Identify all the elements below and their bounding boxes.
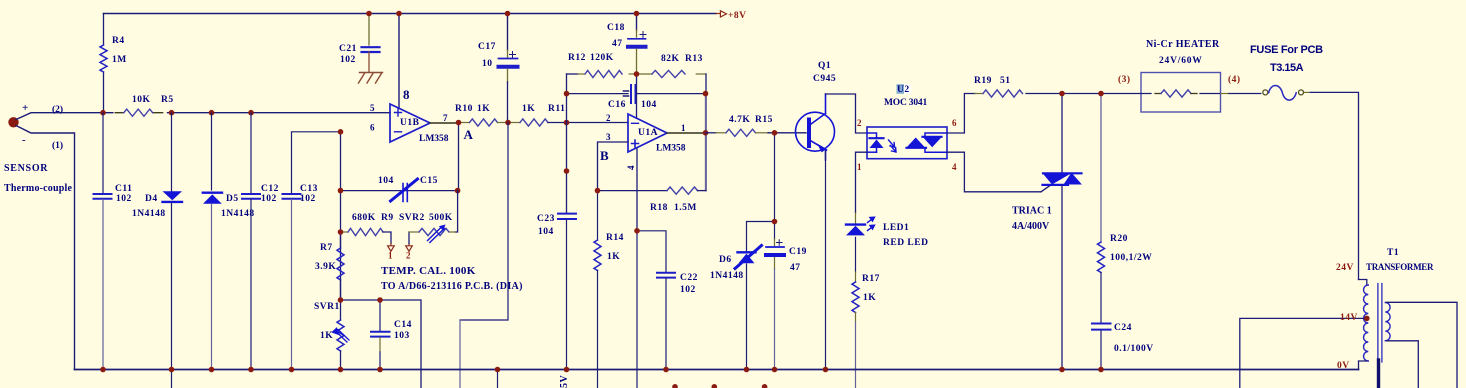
diode D5 1N4148	[211, 113, 213, 190]
svg-text:102: 102	[261, 194, 277, 204]
svg-text:C24: C24	[1114, 323, 1132, 333]
svg-text:C22: C22	[680, 273, 698, 283]
svg-text:1: 1	[681, 123, 686, 133]
junction dots	[338, 229, 344, 235]
svg-text:R17: R17	[862, 274, 880, 284]
svg-text:51: 51	[1000, 76, 1011, 86]
svg-text:7: 7	[443, 113, 448, 123]
junction 14V	[1364, 316, 1370, 322]
svg-text:R7: R7	[320, 243, 333, 253]
svg-text:SVR1: SVR1	[314, 302, 340, 312]
fuse right terminal circle	[1299, 90, 1304, 95]
junction (103,369.5)	[100, 367, 106, 373]
SECTION:BUS	[75, 370, 1359, 388]
svg-text:102: 102	[680, 285, 696, 295]
svg-text:1: 1	[857, 162, 862, 172]
resistor R5	[115, 112, 162, 114]
op-amp U1B	[390, 104, 430, 142]
junction (251,112.7)	[248, 110, 254, 116]
capacitor C14	[379, 300, 381, 331]
junction (251,369.5)	[248, 367, 254, 373]
junction (507.5,13.5)	[505, 11, 511, 17]
svg-text:104: 104	[641, 100, 657, 110]
svg-text:A: A	[464, 127, 474, 142]
junction (705.5,93.6)	[703, 91, 709, 97]
junction dots	[456, 120, 462, 126]
svg-text:C945: C945	[813, 74, 836, 84]
sensor thermocouple dot	[8, 117, 18, 127]
opto light arrows	[889, 140, 897, 152]
junction (399,13.5)	[396, 11, 402, 17]
svg-text:1M: 1M	[112, 55, 127, 65]
junction (171.5,369.5)	[169, 367, 175, 373]
svg-text:102: 102	[340, 55, 356, 65]
junction (825.5,369.5)	[823, 367, 829, 373]
svg-text:C14: C14	[394, 320, 412, 330]
wire opto pin1 to LED1	[856, 152, 868, 213]
capacitor C22	[637, 231, 666, 272]
capacitor C17	[507, 14, 509, 51]
variable capacitor C15	[403, 184, 407, 202]
svg-text:D6: D6	[719, 255, 732, 265]
svg-text:4.7K: 4.7K	[729, 115, 750, 125]
svg-text:T3.15A: T3.15A	[1270, 62, 1304, 74]
svg-text:10: 10	[482, 59, 493, 69]
svg-text:(1): (1)	[52, 140, 63, 151]
svg-text:R14: R14	[606, 233, 624, 243]
junction (1101,93.5)	[1098, 91, 1104, 97]
wire U1B pin8	[398, 14, 400, 109]
bus junction dots	[100, 367, 1104, 388]
svg-text:6: 6	[952, 118, 957, 128]
svg-text:47: 47	[790, 263, 801, 273]
svg-text:1K: 1K	[522, 104, 535, 114]
node junctions on main row	[100, 11, 639, 116]
svg-text:FUSE For PCB: FUSE For PCB	[1250, 44, 1323, 56]
svg-text:C23: C23	[537, 214, 555, 224]
svg-text:1K: 1K	[863, 293, 876, 303]
junction (714.3,386.8)	[712, 384, 718, 388]
ground	[359, 73, 383, 84]
potentiometer SVR2 500K	[408, 232, 410, 244]
SECTION:SENSOR	[8, 109, 390, 369]
capacitor C23	[558, 214, 576, 219]
power arrow +8V	[716, 13, 720, 15]
junction dots	[1059, 91, 1065, 97]
svg-text:1K: 1K	[607, 252, 620, 262]
wire sensor (2)	[16, 113, 113, 120]
svg-text:Q1: Q1	[818, 61, 831, 71]
svg-text:TEMP. CAL. 100K: TEMP. CAL. 100K	[381, 265, 476, 277]
potentiometer SVR1 1K	[340, 300, 342, 320]
junction (380,300)	[377, 297, 383, 303]
svg-text:R4: R4	[112, 36, 125, 46]
wire Q1 emitter down	[825, 151, 827, 370]
svg-text:C17: C17	[478, 42, 496, 52]
wire heater to fuse	[1221, 93, 1230, 95]
svg-text:Thermo-couple: Thermo-couple	[4, 183, 73, 194]
node A vertical	[458, 123, 460, 191]
transformer T1 primary	[1359, 280, 1367, 286]
svg-text:1N4148: 1N4148	[132, 209, 166, 219]
junction (774.5,369.5)	[772, 367, 778, 373]
svg-text:120K: 120K	[590, 53, 614, 63]
svg-text:SENSOR: SENSOR	[4, 163, 48, 174]
wire C15 row	[341, 132, 458, 300]
junction (637,230.8)	[634, 228, 640, 234]
svg-text:103: 103	[394, 331, 410, 341]
junction (457.6,190.6)	[455, 188, 461, 194]
wire secondary top	[1387, 302, 1458, 388]
junction (340.5,131.8)	[338, 129, 344, 135]
svg-text:102: 102	[116, 194, 132, 204]
capacitor C12	[250, 113, 252, 193]
junction (746.5,369.5)	[744, 367, 750, 373]
junction dots	[564, 91, 570, 97]
svg-text:U1A: U1A	[638, 128, 658, 138]
svg-text:6: 6	[370, 123, 375, 133]
svg-text:U2: U2	[897, 85, 910, 95]
junction (566.5,171)	[564, 168, 570, 174]
svg-text:4: 4	[952, 162, 957, 172]
SECTION:RIGHT	[947, 73, 1359, 370]
wire pin1 node vertical	[705, 94, 707, 191]
transistor Q1 C945	[796, 112, 835, 151]
wire right vertical R13/R18	[705, 74, 707, 191]
svg-text:SVR2: SVR2	[399, 213, 425, 223]
junction (566.5,369.5)	[564, 367, 570, 373]
opto LED	[867, 133, 877, 138]
op-amp U1A	[628, 114, 667, 152]
svg-text:4A/400V: 4A/400V	[1012, 221, 1050, 232]
transformer secondary	[1385, 303, 1390, 341]
svg-text:(4): (4)	[1228, 74, 1241, 85]
junction (211.5,112.7)	[209, 110, 215, 116]
svg-text:R13: R13	[685, 54, 703, 64]
junction (636.5,13.5)	[634, 11, 640, 17]
svg-text:3: 3	[606, 132, 611, 142]
junction (666,369.5)	[663, 367, 669, 373]
wire power drop through U1A	[636, 74, 638, 118]
svg-text:104: 104	[378, 176, 394, 186]
wire U1A out pin1	[667, 132, 706, 134]
svg-text:TO A/D66-213116 P.C.B. (DIA): TO A/D66-213116 P.C.B. (DIA)	[381, 281, 523, 292]
junction (211.5,369.5)	[209, 367, 215, 373]
resistor R12 120K	[567, 73, 579, 75]
capacitor C18	[636, 14, 638, 31]
junction (774.5,221.5)	[772, 219, 778, 225]
label U2 highlight white	[904, 84, 911, 94]
svg-text:82K: 82K	[661, 54, 680, 64]
svg-text:R11: R11	[548, 104, 565, 114]
junction (597.5,190.6)	[595, 188, 601, 194]
resistor R15 4.7K	[706, 132, 717, 134]
svg-text:102: 102	[300, 194, 316, 204]
svg-text:LM358: LM358	[419, 134, 449, 144]
svg-text:C11: C11	[115, 184, 132, 194]
svg-text:8: 8	[403, 87, 410, 102]
svg-text:(3): (3)	[1118, 74, 1131, 85]
svg-text:100,1/2W: 100,1/2W	[1110, 253, 1152, 263]
junction (764.6,386.8)	[762, 384, 768, 388]
wire fuse to transformer	[1310, 92, 1359, 279]
wire opto pin6 up	[947, 94, 975, 134]
port 1 arrow	[390, 244, 392, 246]
wire opto pin4 to triac gate	[947, 152, 1041, 192]
svg-text:10K: 10K	[132, 95, 151, 105]
wire 14V tap	[1240, 318, 1367, 388]
svg-text:B: B	[600, 148, 609, 163]
resistor R20 100,1/2W	[1100, 94, 1102, 243]
svg-text:47: 47	[612, 39, 623, 49]
svg-text:R12: R12	[568, 53, 586, 63]
svg-text:-: -	[22, 134, 26, 146]
resistor R7 3.9K	[340, 232, 342, 248]
svg-text:0.1/100V: 0.1/100V	[1114, 344, 1154, 354]
svg-text:680K: 680K	[352, 213, 376, 223]
svg-text:R20: R20	[1110, 234, 1128, 244]
junction (380,369.5)	[377, 367, 383, 373]
svg-text:RED LED: RED LED	[883, 238, 928, 248]
wire ground bus	[75, 369, 1359, 371]
junction dots	[772, 130, 778, 136]
svg-text:C13: C13	[300, 184, 318, 194]
wire R15 node to D6/C19	[774, 133, 776, 222]
svg-text:1: 1	[388, 251, 393, 261]
SECTION:Q1OPTO	[706, 94, 948, 388]
svg-text:104: 104	[538, 227, 554, 237]
opto triac	[925, 133, 947, 137]
junction (369,13.5)	[366, 11, 372, 17]
resistor R17 1K	[852, 282, 859, 313]
resistor R11	[508, 122, 520, 124]
svg-text:24V: 24V	[1336, 263, 1354, 273]
heater resistor	[1101, 93, 1151, 95]
svg-text:LED1: LED1	[883, 223, 909, 233]
SECTION:U1A	[558, 70, 708, 388]
junction (566.5,122.5)	[564, 120, 570, 126]
svg-text:R19: R19	[974, 76, 992, 86]
junction (340.5,300)	[338, 297, 344, 303]
wire pin4 down	[636, 231, 638, 388]
junction (497.5,369.5)	[495, 367, 501, 373]
label U2 selection highlight	[897, 84, 905, 94]
svg-text:Ni-Cr HEATER: Ni-Cr HEATER	[1146, 39, 1220, 50]
node dots at bottom edge	[672, 384, 678, 388]
junction (291.5,369.5)	[289, 367, 295, 373]
svg-text:1N4148: 1N4148	[710, 271, 744, 281]
svg-text:24V/60W: 24V/60W	[1159, 56, 1203, 66]
svg-text:4: 4	[626, 165, 636, 170]
svg-text:2: 2	[857, 118, 862, 128]
svg-text:5V: 5V	[559, 375, 570, 388]
resistor R19 51	[975, 93, 983, 95]
wire U1B out pin7	[430, 122, 459, 124]
wire top +8V rail	[104, 13, 717, 15]
wire U1A pin3	[598, 142, 629, 191]
svg-text:TRANSFORMER: TRANSFORMER	[1366, 262, 1434, 272]
svg-text:C15: C15	[420, 176, 438, 186]
SECTION:TOP	[100, 11, 727, 122]
capacitor C11	[102, 113, 104, 193]
svg-text:C19: C19	[789, 247, 807, 257]
resistor R4	[103, 14, 105, 111]
capacitor C21	[362, 47, 380, 52]
svg-text:+8V: +8V	[728, 11, 747, 21]
capacitor C19	[774, 222, 776, 240]
svg-text:TRIAC 1: TRIAC 1	[1012, 206, 1052, 217]
SECTION:LEFTCAPS	[94, 113, 341, 388]
junction (705.5,132.8)	[703, 130, 709, 136]
svg-text:R15: R15	[755, 115, 773, 125]
svg-text:R18: R18	[650, 203, 668, 213]
SECTION:XFMR	[1240, 280, 1457, 388]
wire secondary bottom	[1387, 341, 1419, 388]
optocoupler U2 MOC3041 box	[867, 127, 947, 159]
wire feedback left vertical	[566, 74, 568, 213]
svg-text:R5: R5	[161, 95, 174, 105]
capacitor C13	[292, 132, 341, 193]
junction (1101,369.5)	[1098, 367, 1104, 373]
capacitor C16	[567, 93, 629, 95]
svg-text:+: +	[22, 102, 28, 114]
svg-text:C12: C12	[261, 184, 279, 194]
svg-text:500K: 500K	[429, 213, 453, 223]
svg-text:R9: R9	[381, 213, 394, 223]
svg-text:2: 2	[606, 113, 611, 123]
wire thick below core	[1377, 360, 1380, 388]
svg-text:(2): (2)	[52, 104, 63, 115]
junction (103,112.7)	[100, 110, 106, 116]
capacitor C24	[1092, 324, 1111, 330]
junction (171.5,112.7)	[169, 110, 175, 116]
wire stub below bus at 497	[497, 370, 499, 388]
svg-text:T1: T1	[1387, 248, 1399, 258]
diode D6 1N4148	[747, 222, 775, 252]
fuse T3.15A	[1263, 90, 1268, 95]
svg-text:D5: D5	[226, 194, 239, 204]
wire sensor (1)	[16, 126, 75, 370]
triac TRIAC1	[1061, 94, 1063, 174]
svg-text:1N4148: 1N4148	[221, 209, 255, 219]
junction (636.5,74)	[634, 71, 640, 77]
svg-text:LM358: LM358	[656, 144, 686, 154]
wire row y300	[341, 300, 422, 388]
resistor R10	[459, 122, 470, 124]
svg-text:C21: C21	[339, 44, 357, 54]
svg-text:U1B: U1B	[400, 118, 420, 128]
svg-text:2: 2	[406, 251, 411, 261]
wire Q1 collector to opto pin2	[826, 94, 868, 133]
wire R11 to U1A pin2	[548, 122, 628, 124]
svg-text:1K: 1K	[477, 104, 490, 114]
svg-text:1.5M: 1.5M	[674, 203, 697, 213]
SECTION:U1B	[338, 104, 628, 300]
port 2 arrow	[408, 244, 410, 246]
resistor R13 82K	[637, 73, 653, 75]
svg-text:MOC 3041: MOC 3041	[884, 98, 927, 108]
svg-text:D4: D4	[145, 194, 158, 204]
resistor R9 680K	[341, 231, 349, 233]
svg-text:3.9K: 3.9K	[315, 262, 336, 272]
svg-text:C16: C16	[608, 100, 626, 110]
resistor R18 1.5M	[598, 190, 668, 192]
LED LED1	[855, 213, 857, 224]
transformer core	[1378, 284, 1382, 363]
wire staircase from R10/R11 node	[460, 123, 508, 321]
heater box Ni-Cr	[1141, 73, 1221, 113]
svg-text:14V: 14V	[1340, 313, 1358, 323]
svg-text:C18: C18	[607, 23, 625, 33]
SECTION:MIDLOW	[333, 123, 509, 388]
junction (340.5,190.6)	[338, 188, 344, 194]
svg-text:5: 5	[370, 103, 375, 113]
junction (508,122.5)	[505, 120, 511, 126]
wire C21 top lead	[368, 14, 370, 46]
junction (340.5,369.5)	[338, 367, 344, 373]
resistor R14 1K	[597, 191, 599, 240]
diode D4 1N4148	[171, 113, 173, 191]
svg-text:1K: 1K	[320, 331, 333, 341]
junction (1062,369.5)	[1059, 367, 1065, 373]
svg-text:R10: R10	[455, 104, 473, 114]
